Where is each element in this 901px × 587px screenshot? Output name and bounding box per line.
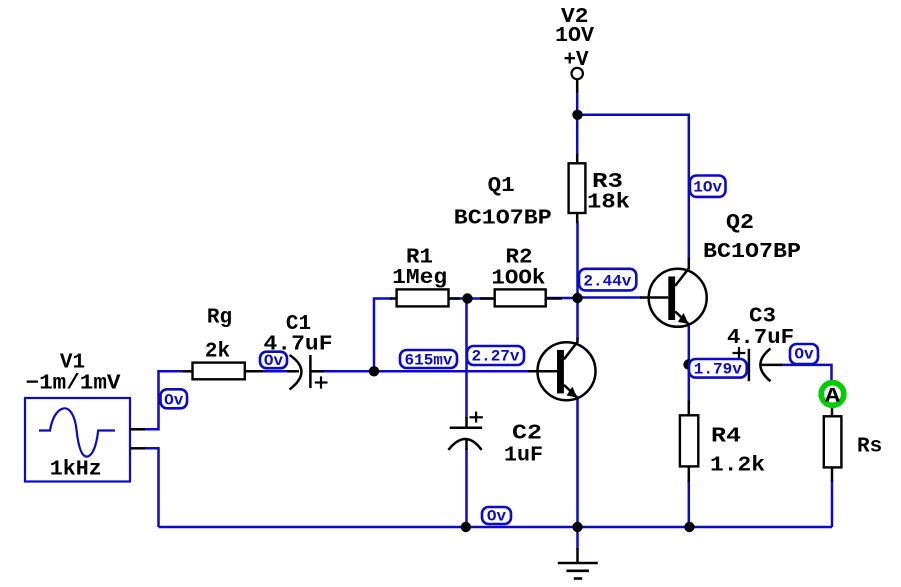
resistor R4 1.2k xyxy=(680,401,765,483)
svg-text:Ov: Ov xyxy=(264,352,284,370)
wire Q2 emitter down to R4 xyxy=(688,326,691,402)
wire V1 minus terminal down to ground rail xyxy=(145,448,159,527)
junction node 2.44v xyxy=(572,293,582,303)
wire node 2.27v down to C2 xyxy=(465,299,468,419)
junction R4 at rail xyxy=(684,522,694,532)
wire bottom ground rail xyxy=(159,526,833,529)
svg-text:Rg: Rg xyxy=(207,307,232,330)
svg-text:Rs: Rs xyxy=(857,436,882,459)
wire V1 plus terminal to Rg xyxy=(145,371,183,429)
voltage label 0v at V1 output xyxy=(161,389,188,409)
svg-text:4.7uF: 4.7uF xyxy=(727,327,794,350)
wire R1 to R2 xyxy=(448,297,496,300)
svg-text:V1: V1 xyxy=(60,352,85,375)
junction node 1.79v xyxy=(683,359,693,369)
svg-text:−1m/1mV: −1m/1mV xyxy=(26,373,121,396)
capacitor C1 4.7uF xyxy=(264,313,333,390)
junction node 10v xyxy=(572,110,582,120)
svg-text:1Meg: 1Meg xyxy=(392,267,447,290)
svg-text:1OOk: 1OOk xyxy=(491,268,545,291)
wire R3 bottom to Q1 collector xyxy=(576,221,579,339)
wire R4 bottom to ground rail xyxy=(688,480,691,527)
voltage label 615mv at Q1 base xyxy=(400,350,457,370)
node A output terminal xyxy=(821,383,844,409)
svg-text:Q2: Q2 xyxy=(726,212,754,235)
svg-text:Ov: Ov xyxy=(164,392,184,410)
capacitor C3 4.7uF xyxy=(727,306,794,382)
transistor Q1 BC107BP xyxy=(454,175,596,400)
junction node 2.27v xyxy=(462,293,472,303)
svg-text:1kHz: 1kHz xyxy=(50,459,102,482)
svg-text:BC1O7BP: BC1O7BP xyxy=(703,241,801,264)
svg-text:2.44v: 2.44v xyxy=(583,273,631,291)
svg-text:1.79v: 1.79v xyxy=(694,361,742,379)
wire collector node to Q2 base xyxy=(578,296,643,299)
svg-text:1.2k: 1.2k xyxy=(710,455,765,478)
wire C2 bottom to ground rail xyxy=(465,448,468,527)
voltage label 0v at ground rail xyxy=(482,507,511,526)
svg-text:R4: R4 xyxy=(711,426,741,449)
wire Rs bottom to ground rail xyxy=(831,480,834,527)
voltage label 1.79v at Q2 emitter xyxy=(689,359,747,379)
voltage label 0v at C1 left xyxy=(260,352,287,370)
svg-text:Ov: Ov xyxy=(794,346,814,364)
resistor R3 18k xyxy=(569,154,630,223)
voltage label 2.27v at R1/R2 node xyxy=(467,346,524,366)
resistor Rs xyxy=(824,406,882,483)
svg-text:A: A xyxy=(825,386,840,409)
resistor Rg 2k xyxy=(183,307,263,380)
resistor R2 100k xyxy=(480,247,562,307)
wire C3 to node A xyxy=(780,365,832,384)
svg-text:2.27v: 2.27v xyxy=(471,348,519,366)
svg-text:+V: +V xyxy=(564,49,589,72)
svg-text:R2: R2 xyxy=(506,247,533,270)
voltage label 10v at Q2 collector xyxy=(690,176,726,197)
svg-text:1Ov: 1Ov xyxy=(693,179,722,197)
svg-text:C2: C2 xyxy=(512,423,542,446)
wire Q1 emitter to ground rail xyxy=(576,396,579,550)
svg-text:2k: 2k xyxy=(205,341,230,364)
svg-text:BC1O7BP: BC1O7BP xyxy=(454,208,552,231)
wire V2 node to Q2 collector xyxy=(577,115,689,260)
junction C2 at rail xyxy=(461,522,471,532)
voltage label 0v at C3 right xyxy=(790,344,818,364)
svg-text:615mv: 615mv xyxy=(404,352,452,370)
wire Q2 emitter node to C3 xyxy=(689,363,742,366)
wire R2 to collector node xyxy=(544,297,578,300)
wire Rg to C1 xyxy=(261,370,288,373)
svg-text:C3: C3 xyxy=(749,306,776,329)
resistor R1 1Meg xyxy=(390,247,460,307)
svg-text:1uF: 1uF xyxy=(504,445,543,468)
transistor Q2 BC107BP xyxy=(640,212,801,327)
svg-text:1OV: 1OV xyxy=(555,25,594,48)
voltage label 2.44v at Q1 collector xyxy=(579,269,636,291)
wire V2 to R3 top xyxy=(576,90,579,156)
wire node 615mv up to R1 xyxy=(374,299,392,372)
voltage source V1 xyxy=(25,352,145,482)
junction node 615mv xyxy=(369,366,379,376)
svg-text:18k: 18k xyxy=(587,192,630,215)
svg-text:Q1: Q1 xyxy=(488,175,515,198)
ground xyxy=(558,548,598,579)
wire C1 to Q1 base xyxy=(322,370,530,373)
svg-text:Ov: Ov xyxy=(487,508,507,526)
capacitor C2 1uF xyxy=(448,412,543,468)
junction ground at rail xyxy=(572,522,582,532)
power supply V2 +V terminal xyxy=(555,6,594,93)
